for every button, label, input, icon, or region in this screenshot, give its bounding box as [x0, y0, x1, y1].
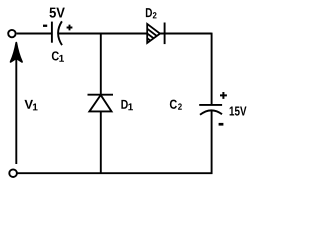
- diode D1 triangle: [89, 95, 111, 111]
- label D1: [121, 100, 133, 110]
- wire C1 to D2: [58, 33, 147, 35]
- D2 hatch lines: [147, 29, 157, 41]
- label V1: [24, 100, 37, 111]
- label C2: [170, 100, 182, 110]
- source V1 arrowhead: [11, 43, 22, 62]
- wire top-left to C1: [17, 33, 52, 35]
- wire C2 to bottom-right corner and bottom wire: [17, 110, 212, 173]
- label 15V: [230, 107, 247, 116]
- label D2: [146, 8, 157, 18]
- label 5V: [50, 8, 65, 18]
- diode D2 cathode bar: [164, 23, 166, 45]
- C2 minus sign: [219, 123, 224, 126]
- terminal bottom-left: [9, 169, 17, 177]
- wire D2 apex to bar and to corner: [160, 33, 212, 35]
- label C1: [52, 51, 64, 61]
- wire D1 to bottom wire: [100, 111, 102, 173]
- capacitor C2 top plate: [199, 104, 222, 106]
- diode D1 cathode bar: [88, 94, 114, 96]
- capacitor C1 left plate: [51, 22, 53, 43]
- wire right branch down to C2: [211, 33, 213, 105]
- wire D1 branch top: [100, 34, 102, 95]
- C1 minus sign: [43, 25, 47, 27]
- diode D2 triangle (hatched): [147, 24, 160, 43]
- C2 plus sign: [220, 92, 227, 99]
- capacitor C1 curved plate: [58, 21, 62, 45]
- capacitor C2 curved plate: [200, 110, 222, 114]
- source V1 line: [15, 56, 17, 164]
- terminal top-left: [8, 30, 15, 37]
- C1 plus sign: [67, 25, 73, 31]
